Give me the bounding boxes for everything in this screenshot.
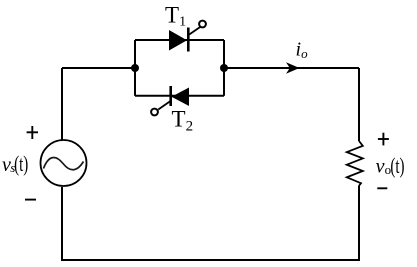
svg-text:(t): (t) — [390, 154, 404, 179]
svg-text:v: v — [376, 156, 385, 178]
svg-text:(t): (t) — [14, 153, 28, 177]
